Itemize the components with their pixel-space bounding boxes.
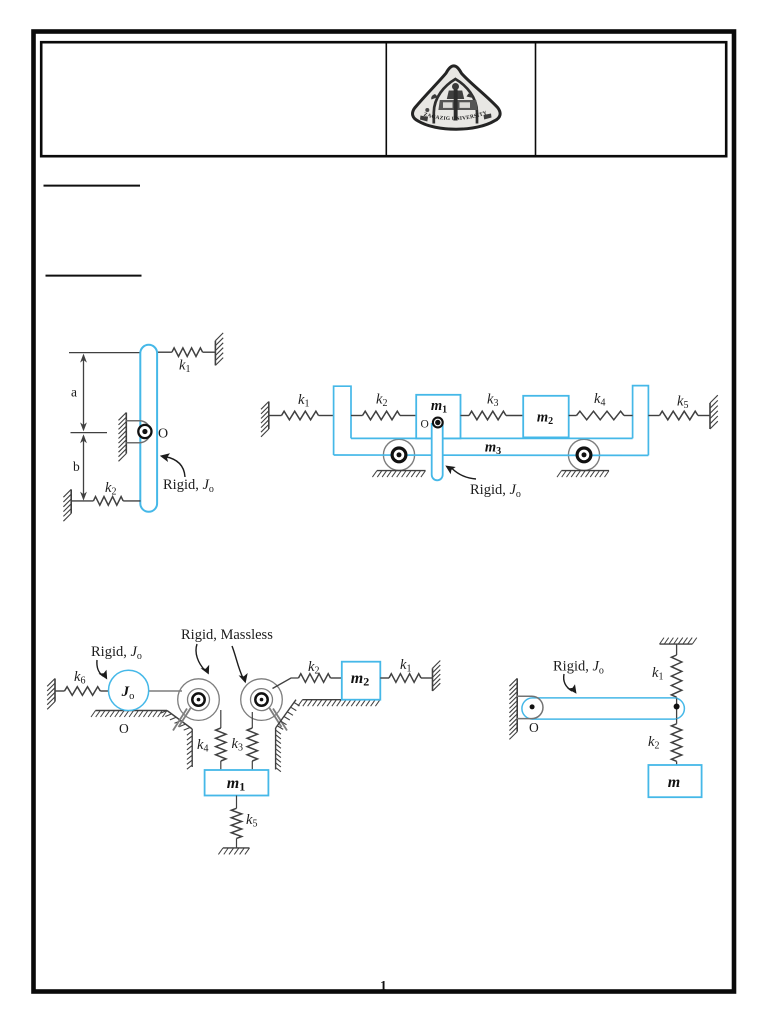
heading underline 1 [44, 185, 141, 187]
pivot clevis bracket (diagram 1) [126, 421, 150, 443]
arrow to bar (diagram 1) [160, 453, 185, 477]
wire through bar (diagram 4) [676, 699, 678, 719]
ceiling hatch (diagram 4) [660, 643, 693, 645]
left wall (diagram 2) [268, 402, 270, 430]
svg-text:O: O [421, 419, 429, 431]
spring k4 (diagram 2) [569, 415, 577, 417]
roller wheel 1 rim (diagram 2) [383, 439, 414, 470]
dimension arrow b [80, 434, 87, 500]
mass m2 box (diagram 3) [342, 662, 381, 700]
header table box [41, 42, 726, 156]
ground under Jo disk with slope (diagram 3) [96, 710, 168, 712]
arrow to pulley 1 (diagram 3) [196, 644, 209, 675]
rigid bar Jo capsule (diagram 1) [140, 345, 157, 512]
spring k2 (diagram 1) with wall [70, 489, 72, 513]
hanging rigid bar capsule (diagram 2) [432, 423, 443, 480]
roller wheel 1 (diagram 2) [392, 448, 406, 462]
spring k5 (diagram 2) with right wall [648, 415, 659, 417]
cord pulley1 to k4 (diagram 3) [220, 710, 222, 728]
spring k5 (diagram 3) with ground [236, 796, 238, 809]
arrow to pulley 2 (diagram 3) [232, 646, 248, 683]
mass m1 box (diagram 3) [205, 770, 269, 796]
pivot pin on m1 (diagram 2) [433, 418, 443, 428]
heading underline 2 [46, 275, 142, 277]
ground under m2 (diagram 3) [303, 699, 381, 701]
left wall (diagram 4) [516, 678, 518, 731]
mass m1 box (diagram 2) [416, 395, 460, 439]
cord pulley2 to k3 (diagram 3) [251, 712, 253, 728]
svg-text:Rigid, Jo: Rigid, Jo [553, 659, 604, 677]
spring k1 (diagram 1) with wall [157, 351, 172, 353]
svg-text:O: O [119, 721, 129, 736]
ground under wheel 1 (diagram 2) [377, 470, 426, 472]
wire pulley2 to spring k2 (diagram 3) [273, 678, 299, 689]
spring k6 (diagram 3) [55, 690, 65, 692]
spring k2 (diagram 4) [676, 719, 678, 724]
spring k4 (diagram 3) [216, 728, 226, 761]
svg-text:m: m [668, 774, 680, 791]
left wall (diagram 3) [54, 679, 56, 702]
arrow to Jo disk (diagram 3) [97, 660, 107, 680]
spring k3 (diagram 3) [247, 728, 257, 761]
rigid bar capsule (diagram 4) [522, 698, 685, 719]
svg-text:Rigid, Massless: Rigid, Massless [181, 627, 273, 643]
Jo disk (diagram 3) [109, 670, 149, 710]
ground under wheel 2 (diagram 2) [562, 470, 610, 472]
pivot clevis (diagram 4) [516, 696, 543, 718]
pivot dot (diagram 4) [530, 704, 535, 709]
svg-text:a: a [71, 385, 77, 400]
mass m box (diagram 4) [648, 765, 701, 797]
mass m2 box (diagram 2) [523, 396, 569, 438]
right slope wall (diagram 3) [276, 700, 296, 728]
pulley 1 (diagram 3) [173, 679, 219, 731]
arrow to hanging bar (diagram 2) [445, 466, 476, 480]
wire: top horizontal line at bar top [69, 352, 141, 354]
dimension arrow a [80, 354, 87, 432]
svg-text:Rigid, Jo: Rigid, Jo [163, 477, 214, 495]
pulley 2 (diagram 3) [241, 679, 287, 731]
Zagazig University logo [413, 66, 501, 129]
roller wheel 2 (diagram 2) [577, 448, 591, 462]
arrow to bar (diagram 4) [564, 674, 577, 694]
spring k2 (diagram 2) [351, 415, 363, 417]
svg-text:Rigid, Jo: Rigid, Jo [91, 644, 142, 662]
svg-text:1: 1 [380, 978, 387, 993]
spring k1 (diagram 2) [269, 415, 282, 417]
spring k2 (diagram 3) [299, 674, 331, 683]
svg-text:b: b [73, 459, 80, 474]
spring k1 (diagram 4) [676, 644, 678, 655]
link rod from Jo disk to pulley 1 (diagram 3) [147, 690, 182, 692]
pivot pin O (diagram 1) [138, 425, 151, 438]
m3 frame: left bracket, rails, right bracket (cyan) [334, 386, 649, 456]
spring k3 (diagram 2) [461, 415, 470, 417]
pivot support wall (diagram 1) [125, 413, 127, 454]
pivot level tick line [71, 432, 108, 434]
svg-text:O: O [529, 720, 539, 735]
attachment dot on bar (diagram 4) [674, 704, 680, 710]
svg-text:Rigid, Jo: Rigid, Jo [470, 482, 521, 500]
spring k1 (diagram 3) with wall [380, 677, 389, 679]
svg-text:O: O [158, 427, 168, 442]
roller wheel 2 rim (diagram 2) [568, 439, 599, 470]
